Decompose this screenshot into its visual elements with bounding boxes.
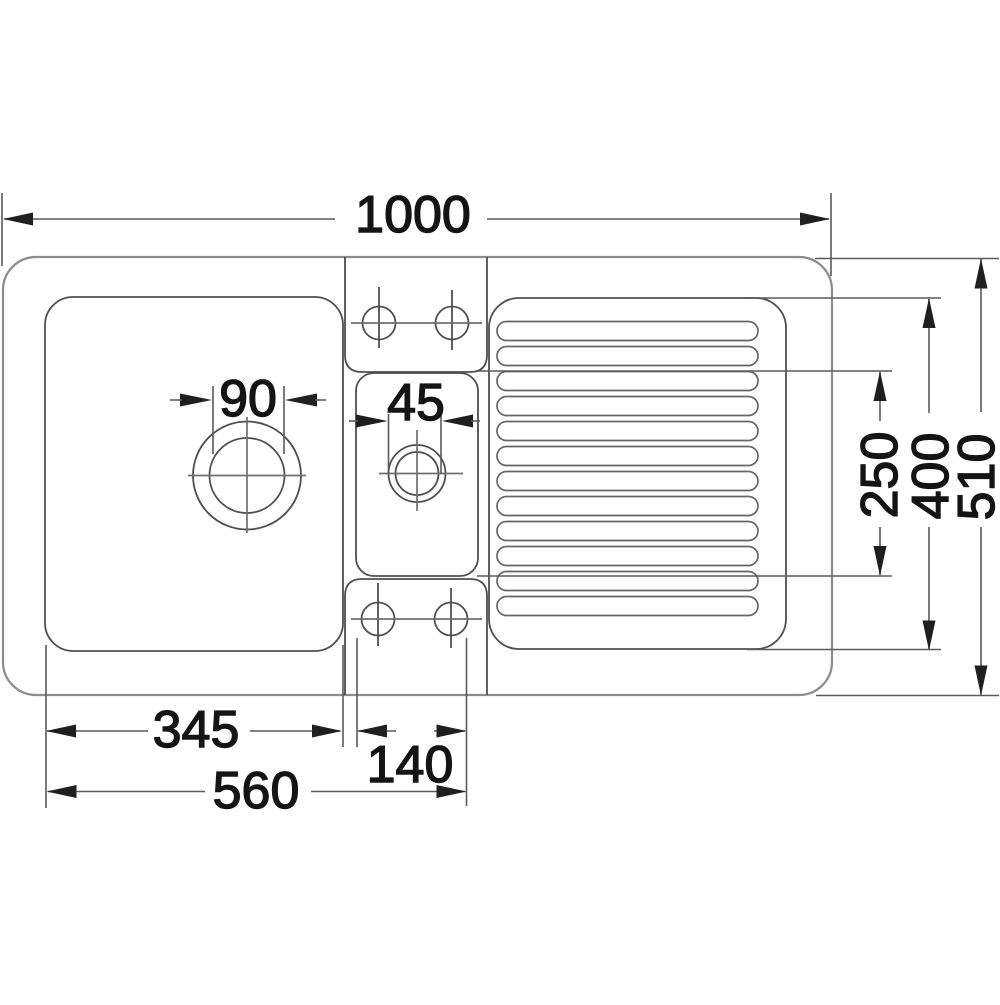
- dimension 345 line: [47, 730, 340, 732]
- tap hole bottom-right: [435, 588, 468, 648]
- dimension 510 extension lines: [815, 259, 999, 696]
- dimension 345 arrows: [46, 725, 342, 738]
- dimension 90 arrows: [180, 394, 317, 407]
- top tap ledge: [345, 257, 487, 372]
- dimension 400 extension lines: [747, 298, 941, 650]
- dimension 1000 line: [4, 218, 829, 220]
- dimension 400 line: [928, 299, 930, 650]
- svg-text:45: 45: [387, 374, 445, 432]
- main drain outer circle: [193, 422, 301, 530]
- drainer outline: [489, 298, 786, 649]
- svg-text:510: 510: [948, 434, 1000, 521]
- tap holes bottom centerline: [351, 618, 482, 620]
- dimension 345 right extension line: [342, 645, 344, 747]
- svg-text:345: 345: [153, 701, 240, 759]
- drainer ribs: [497, 322, 758, 616]
- dimension 560 line: [48, 791, 465, 793]
- dimension 510 arrows: [975, 259, 988, 696]
- bottom tap ledge: [345, 579, 487, 695]
- small drain outer circle: [389, 445, 446, 502]
- sink outer outline: [3, 257, 832, 695]
- svg-text:250: 250: [851, 432, 909, 519]
- tap hole top-left: [363, 287, 396, 348]
- tap hole top-right: [436, 290, 469, 350]
- dimension 1000 arrows: [3, 213, 830, 226]
- dimension 140 left extension line: [356, 638, 358, 747]
- left basin: [45, 297, 343, 651]
- dimension 140/560 right extension line: [466, 638, 468, 806]
- svg-text:90: 90: [219, 370, 277, 428]
- tap holes top centerline: [351, 322, 482, 324]
- tap hole bottom-left: [362, 583, 395, 646]
- dimension 250 line: [879, 372, 881, 575]
- dimension 45 arrows: [356, 415, 473, 428]
- dimension 560 arrows: [47, 785, 467, 798]
- dimension 45 extension lines: [389, 414, 442, 474]
- middle small basin: [356, 373, 478, 576]
- small drain crosshair: [379, 430, 463, 511]
- dimension 510 line: [980, 259, 982, 695]
- dimension 250 arrows: [874, 371, 887, 576]
- main drain crosshair: [188, 417, 306, 533]
- svg-text:1000: 1000: [355, 186, 471, 244]
- small drain inner circle: [396, 452, 439, 495]
- dimension 140 line: [358, 730, 465, 732]
- main drain inner circle: [210, 438, 285, 513]
- svg-text:140: 140: [367, 736, 454, 794]
- dimension 90 arrow tails: [170, 399, 326, 401]
- dimension 250 extension lines: [477, 371, 892, 576]
- svg-text:560: 560: [213, 762, 300, 820]
- dimension 345/560 left extension line: [45, 645, 47, 808]
- dimension 1000 extension lines: [2, 193, 831, 276]
- dimension 45 arrow tails: [349, 420, 480, 422]
- dimension 90 extension lines: [213, 386, 284, 454]
- dimension 140 arrows: [357, 725, 467, 738]
- dimension 400 arrows: [923, 298, 936, 651]
